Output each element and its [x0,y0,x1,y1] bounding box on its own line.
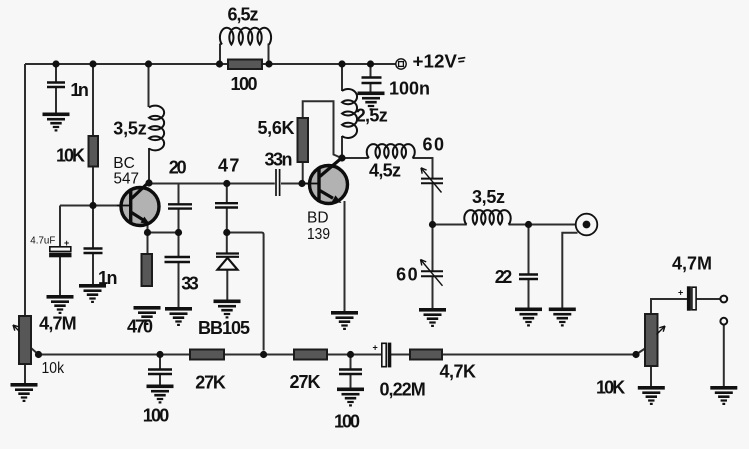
svg-text:33: 33 [181,274,199,294]
svg-text:27K: 27K [290,372,321,392]
svg-text:20: 20 [169,157,187,177]
svg-text:4,5z: 4,5z [369,161,401,181]
svg-text:4,7M: 4,7M [39,314,77,334]
svg-text:+: + [678,288,683,298]
svg-text:33n: 33n [265,149,293,169]
svg-text:3,5z: 3,5z [113,119,147,139]
svg-text:27K: 27K [195,373,226,393]
svg-text:100n: 100n [389,78,430,98]
svg-text:+: + [373,343,378,353]
svg-text:547: 547 [114,171,140,188]
svg-text:5,6K: 5,6K [258,118,295,138]
svg-text:0,22M: 0,22M [379,380,425,400]
svg-text:10k: 10k [42,360,65,377]
svg-text:6,5z: 6,5z [228,5,259,25]
svg-text:+12V: +12V [413,52,458,72]
svg-text:139: 139 [307,226,330,243]
svg-text:60: 60 [396,265,418,285]
svg-text:60: 60 [423,134,445,154]
svg-text:1n: 1n [98,268,118,288]
svg-text:4,7K: 4,7K [439,362,476,382]
svg-text:BC: BC [113,155,135,172]
svg-text:BD: BD [307,209,329,226]
svg-text:22: 22 [495,267,513,287]
svg-text:4.7uF: 4.7uF [30,235,55,246]
svg-text:3,5z: 3,5z [472,187,505,207]
svg-text:2,5z: 2,5z [356,106,388,126]
svg-text:47: 47 [218,156,240,176]
svg-text:+: + [64,238,69,248]
svg-text:100: 100 [334,412,360,432]
svg-text:100: 100 [231,74,258,94]
svg-text:470: 470 [127,317,153,337]
svg-text:10K: 10K [596,378,625,398]
svg-text:BB105: BB105 [198,318,250,338]
svg-text:1n: 1n [70,80,89,100]
svg-text:100: 100 [143,405,170,425]
svg-text:4,7M: 4,7M [672,254,712,274]
svg-text:10K: 10K [56,146,85,166]
